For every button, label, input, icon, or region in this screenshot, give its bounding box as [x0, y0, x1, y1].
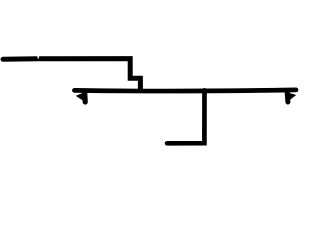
arrow left: shaft [82, 91, 88, 102]
wire: long horizontal bus [74, 90, 296, 91]
wire: middle vertical drop with bottom-left return [167, 90, 204, 143]
arrow left: head triangle [76, 93, 86, 103]
wire: top-left horizontal segment A [3, 56, 38, 61]
arrow right: shaft [285, 91, 291, 102]
node gap notch between segment A and B [37, 56, 39, 59]
wire: top horizontal segment B with step-down bends [39, 59, 140, 92]
arrow right: head triangle [288, 93, 296, 102]
